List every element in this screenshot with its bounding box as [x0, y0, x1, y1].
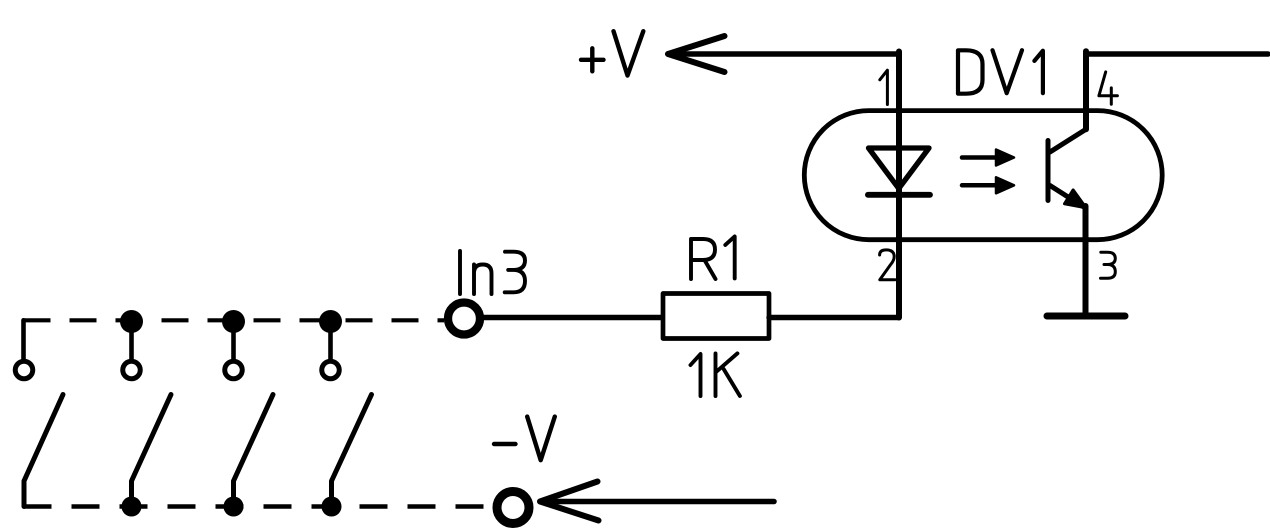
LED cathode bar — [868, 192, 930, 198]
junction dot node S2 bottom — [122, 497, 142, 517]
wire pin4 vertical drop — [1083, 51, 1089, 129]
phototransistor Q (base bar) — [1046, 141, 1051, 201]
pin 2 — [880, 250, 895, 280]
label R1 — [691, 236, 735, 279]
pin 1 — [880, 70, 888, 104]
terminal bar at pin3 — [1047, 313, 1125, 320]
wire pin1 to pin2 vertical through LED (node at x=899) — [896, 52, 902, 318]
light arrow upper — [962, 155, 999, 160]
switch S2 common contact (open circle) — [123, 361, 141, 379]
label DV1 — [958, 50, 1043, 93]
switch S4 lever — [332, 395, 372, 507]
terminal -V (open circle) — [497, 492, 529, 524]
wire pin3 emitter drop — [1083, 206, 1089, 316]
switch S1 common stem — [21, 320, 26, 359]
switch S1 lever — [24, 395, 63, 507]
label 1K — [691, 353, 740, 396]
resistor R1 (box) — [663, 294, 769, 339]
pin 4 — [1099, 72, 1118, 104]
switch S1 common contact (open circle) — [15, 361, 33, 379]
junction dot node S4 bottom — [322, 497, 342, 517]
dashed bus top (switch commons to In3) — [24, 318, 445, 322]
light arrow lower — [962, 183, 999, 188]
junction dot node S4 top — [319, 310, 342, 333]
label +V — [581, 31, 643, 75]
emitter arrowhead — [1065, 190, 1087, 208]
arrowhead at +V (open) — [668, 36, 725, 72]
wire In3 to R1 — [482, 315, 663, 320]
junction dot node S3 bottom — [224, 497, 244, 517]
wire +V feed (horizontal shaft) — [668, 51, 899, 57]
LED D (triangle) — [869, 148, 930, 189]
wire -V feed (horizontal shaft) — [540, 499, 774, 505]
terminal In3 (open circle) — [448, 303, 480, 335]
switch S4 common contact (open circle) — [322, 361, 340, 379]
switch S3 lever — [234, 395, 274, 507]
pin 3 — [1101, 252, 1116, 278]
switch S2 common stem — [129, 322, 134, 360]
junction dot node S2 top — [120, 310, 143, 333]
wire top-right collector supply — [1086, 51, 1268, 57]
junction dot node S3 top — [222, 310, 245, 333]
phototransistor emitter diagonal — [1050, 186, 1083, 207]
dashed bus bottom (switch returns to -V) — [24, 504, 495, 509]
switch S2 lever — [132, 395, 172, 507]
switch S3 common stem — [231, 322, 236, 360]
switch S3 common contact (open circle) — [225, 361, 243, 379]
optocoupler U-body DV1 (stadium outline) — [804, 111, 1162, 240]
phototransistor collector diagonal — [1050, 129, 1086, 152]
label In3 — [460, 251, 525, 294]
switch S4 common stem — [328, 322, 333, 360]
label -V — [494, 417, 555, 461]
arrowhead at -V (open) — [540, 482, 599, 521]
wire R1 to pin2 node — [769, 315, 899, 320]
